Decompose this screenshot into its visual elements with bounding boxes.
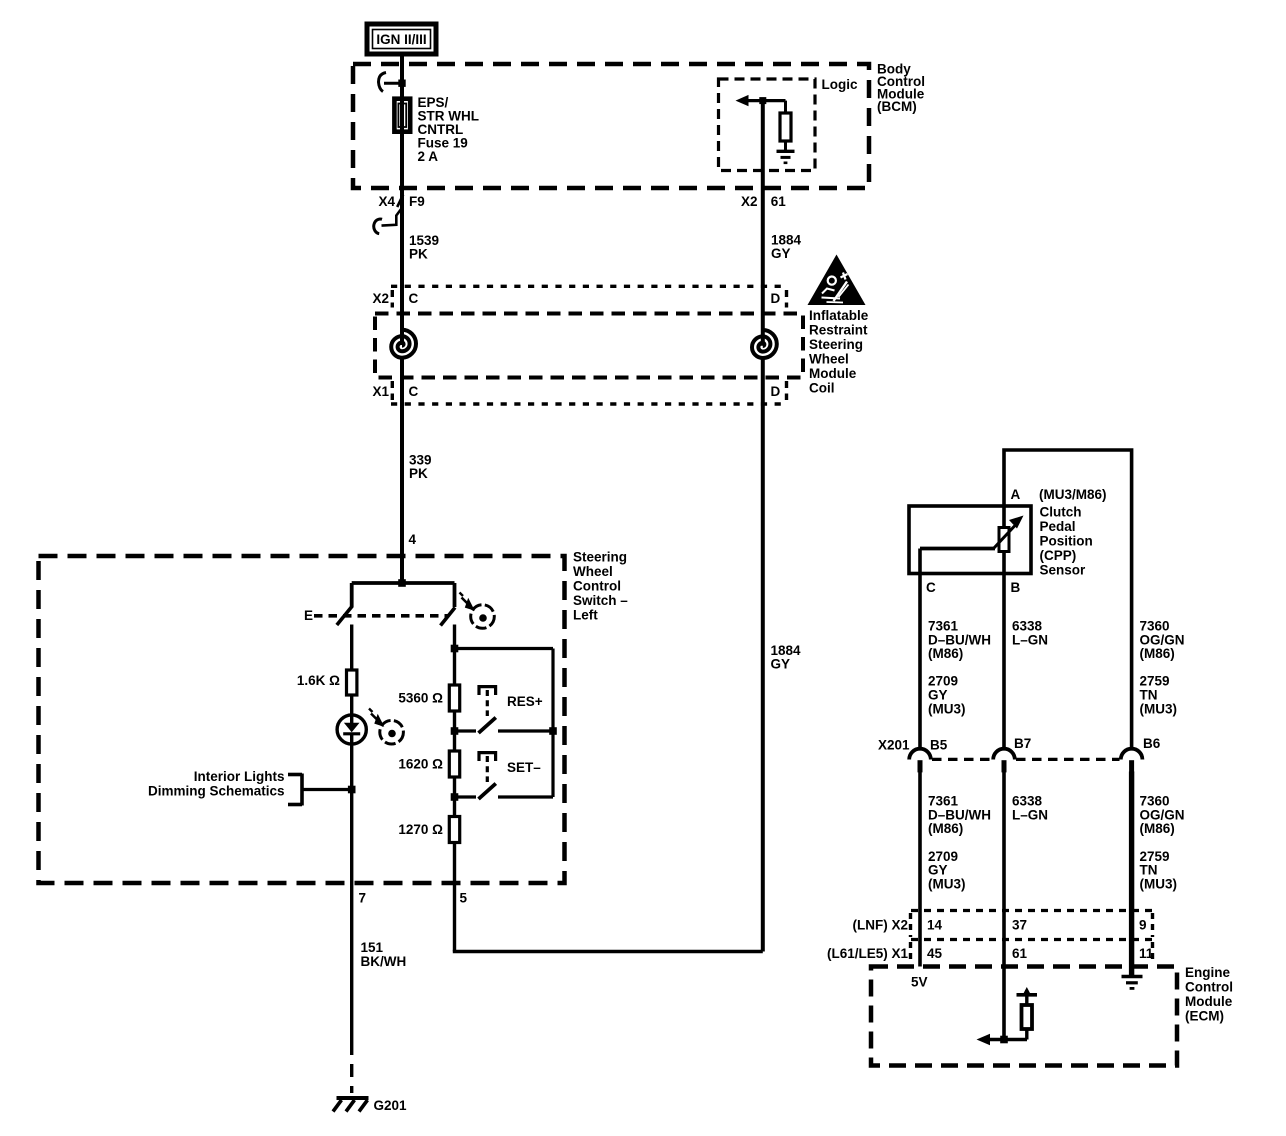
- pin labels X2 C D: [372, 291, 780, 306]
- ECM connector row ticks X2: [911, 913, 1153, 937]
- svg-text:GY: GY: [771, 657, 791, 672]
- svg-text:GY: GY: [928, 688, 948, 703]
- ECM connector row middle dotted: [911, 938, 1153, 941]
- connector band X1 ticks: [391, 381, 394, 400]
- wire left through coil: [400, 287, 404, 345]
- svg-text:SET–: SET–: [507, 760, 541, 775]
- logic input arrow: [736, 95, 786, 106]
- wire C to ECM: [918, 772, 922, 967]
- svg-text:Wheel: Wheel: [573, 564, 613, 579]
- ECM connector row X2 dotted top: [911, 909, 1153, 912]
- svg-text:Coil: Coil: [809, 381, 835, 396]
- wire 151 dashed tail: [350, 1042, 353, 1093]
- potentiometer element: [999, 528, 1009, 552]
- resistor 1270: [449, 817, 459, 843]
- pin numbers 45 61 11: [927, 946, 1154, 961]
- wire interior lights: [302, 788, 352, 791]
- power tag IGN II/III: [367, 24, 436, 54]
- wire label 7361 D-BU/WH (M86) upper: [928, 619, 991, 662]
- wire label 339 PK: [409, 453, 432, 482]
- wire label 7360 OG/GN (M86) lower: [1140, 794, 1185, 837]
- pin label X4 F9: [378, 194, 424, 209]
- svg-text:7361: 7361: [928, 794, 959, 809]
- wire A route over top to B6: [1004, 450, 1132, 750]
- svg-text:5: 5: [460, 891, 468, 906]
- svg-text:A: A: [1011, 487, 1021, 502]
- resistor 1620: [449, 751, 459, 777]
- svg-text:GY: GY: [928, 863, 948, 878]
- wire switch chain: [453, 649, 456, 884]
- wire label 7360 OG/GN (M86) upper: [1140, 619, 1185, 662]
- svg-text:PK: PK: [409, 466, 428, 481]
- svg-text:X201: X201: [878, 738, 910, 753]
- wire B6 to ECM thick: [1129, 772, 1134, 977]
- svg-text:B6: B6: [1143, 736, 1161, 751]
- svg-text:OG/GN: OG/GN: [1140, 807, 1185, 822]
- module box Steering Wheel Control Switch Left: [39, 556, 565, 883]
- module box BCM: [353, 64, 869, 188]
- connector X201 dashed line: [932, 758, 1120, 761]
- wire B7 to ECM: [1002, 772, 1006, 1040]
- svg-text:2 A: 2 A: [418, 149, 439, 164]
- svg-text:Sensor: Sensor: [1040, 563, 1087, 578]
- pin labels B5 B7 B6: [930, 736, 1161, 753]
- svg-text:L–GN: L–GN: [1012, 807, 1048, 822]
- CPP sensor housing box: [909, 506, 1031, 574]
- wire label 151 BK/WH: [361, 940, 407, 969]
- svg-text:Left: Left: [573, 608, 598, 623]
- svg-text:X4: X4: [378, 194, 395, 209]
- wire label 6338 L-GN lower: [1012, 794, 1048, 823]
- connector band X1 bottom dotted line: [391, 402, 787, 405]
- SIR caution triangle: [808, 255, 866, 306]
- pin numbers 14 37 9: [927, 918, 1147, 933]
- resistor 1.6K: [347, 670, 357, 695]
- wiper wire to C: [920, 547, 995, 551]
- svg-text:1270 Ω: 1270 Ω: [398, 822, 443, 837]
- svg-text:Restraint: Restraint: [809, 323, 868, 338]
- svg-text:2709: 2709: [928, 849, 958, 864]
- wire B down: [1002, 551, 1006, 750]
- svg-text:7360: 7360: [1140, 794, 1170, 809]
- svg-text:(MU3): (MU3): [928, 877, 966, 892]
- svg-text:(MU3/M86): (MU3/M86): [1039, 487, 1107, 502]
- wire label 2709 GY (MU3) lower: [928, 849, 966, 892]
- wire LED down: [350, 744, 353, 883]
- logic ground: [777, 151, 795, 163]
- ECM supply arrow: [1017, 987, 1038, 1005]
- svg-text:C: C: [409, 291, 419, 306]
- svg-text:14: 14: [927, 918, 943, 933]
- module box ECM: [871, 967, 1177, 1066]
- svg-text:6338: 6338: [1012, 619, 1043, 634]
- svg-text:9: 9: [1139, 918, 1147, 933]
- svg-text:RES+: RES+: [507, 694, 543, 709]
- wire label 2759 TN (MU3) lower: [1140, 849, 1178, 892]
- svg-text:5V: 5V: [911, 975, 928, 990]
- label Body Control Module (BCM): [877, 62, 925, 115]
- connector hook symbol below X4: [374, 209, 402, 234]
- label Clutch Pedal Position (CPP) Sensor: [1040, 505, 1093, 578]
- svg-text:2759: 2759: [1140, 674, 1170, 689]
- svg-text:Control: Control: [1185, 980, 1233, 995]
- pin labels X1 C D: [372, 384, 780, 399]
- connector band X2 ticks: [391, 290, 394, 308]
- connector X201 pins: [918, 760, 1135, 772]
- wire label 6338 L-GN upper: [1012, 619, 1048, 648]
- svg-text:5360 Ω: 5360 Ω: [398, 691, 443, 706]
- svg-text:D: D: [771, 291, 781, 306]
- svg-text:D: D: [771, 384, 781, 399]
- svg-text:C: C: [409, 384, 419, 399]
- wire 5 to 1884 GY: [453, 883, 763, 952]
- svg-text:45: 45: [927, 946, 943, 961]
- wire 1884 GY from BCM to bottom corner: [761, 101, 765, 346]
- coil module dashed box: [375, 314, 803, 378]
- wire label 1539 PK: [409, 233, 439, 262]
- connector band X2 top dotted line: [391, 285, 787, 288]
- svg-text:(M86): (M86): [1140, 821, 1175, 836]
- svg-text:Position: Position: [1040, 534, 1093, 549]
- bus vertical right: [551, 649, 554, 798]
- svg-text:Inflatable: Inflatable: [809, 308, 869, 323]
- svg-text:(M86): (M86): [1140, 646, 1175, 661]
- svg-text:(LNF) X2: (LNF) X2: [853, 918, 909, 933]
- svg-text:BK/WH: BK/WH: [361, 954, 407, 969]
- svg-text:TN: TN: [1140, 688, 1158, 703]
- switch contact inside BCM: [379, 73, 406, 92]
- switch common bar: [352, 581, 455, 585]
- wire label 2759 TN (MU3) upper: [1140, 674, 1178, 717]
- SET- detent switch: [451, 753, 553, 801]
- svg-text:61: 61: [1012, 946, 1028, 961]
- svg-text:Switch –: Switch –: [573, 593, 628, 608]
- svg-text:C: C: [926, 580, 936, 595]
- svg-text:(CPP): (CPP): [1040, 548, 1077, 563]
- svg-text:E: E: [304, 608, 313, 623]
- interior lights bracket: [288, 774, 302, 806]
- svg-text:Interior Lights: Interior Lights: [194, 769, 285, 784]
- wire IGN to fuse: [400, 54, 404, 287]
- svg-text:X2: X2: [741, 194, 758, 209]
- svg-text:(MU3): (MU3): [928, 701, 966, 716]
- svg-text:G201: G201: [374, 1098, 408, 1113]
- wire 151 solid: [350, 883, 353, 1042]
- label interior lights: [148, 769, 285, 798]
- svg-text:(M86): (M86): [928, 821, 963, 836]
- svg-text:X1: X1: [372, 384, 389, 399]
- potentiometer wiper arrow: [994, 516, 1024, 549]
- ECM signal arrow on B7: [977, 1034, 1028, 1046]
- pin label X2 61 at BCM: [741, 194, 786, 209]
- rotary actuator icon right switch: [460, 593, 495, 629]
- svg-text:(MU3): (MU3): [1140, 701, 1178, 716]
- right switch: [441, 583, 456, 649]
- svg-text:Module: Module: [1185, 994, 1233, 1009]
- svg-text:Dimming Schematics: Dimming Schematics: [148, 783, 285, 798]
- ECM connector row ticks X1: [911, 942, 1153, 964]
- svg-text:B5: B5: [930, 738, 948, 753]
- svg-text:D–BU/WH: D–BU/WH: [928, 632, 991, 647]
- svg-text:B: B: [1011, 580, 1021, 595]
- svg-text:GY: GY: [771, 246, 791, 261]
- svg-text:37: 37: [1012, 918, 1027, 933]
- svg-text:61: 61: [771, 194, 787, 209]
- svg-text:7361: 7361: [928, 619, 959, 634]
- LED lamp symbol: [337, 715, 366, 744]
- svg-text:(ECM): (ECM): [1185, 1009, 1224, 1024]
- svg-text:Clutch: Clutch: [1040, 505, 1082, 520]
- svg-text:7: 7: [359, 891, 367, 906]
- ECM pull-up resistor: [1022, 1005, 1033, 1040]
- svg-text:Pedal: Pedal: [1040, 519, 1076, 534]
- wire label 7361 D-BU/WH (M86) lower: [928, 794, 991, 837]
- svg-text:1.6K Ω: 1.6K Ω: [297, 673, 340, 688]
- wire label 1884 GY lower: [771, 643, 802, 672]
- svg-text:6338: 6338: [1012, 794, 1043, 809]
- svg-text:X2: X2: [372, 291, 389, 306]
- logic box: [719, 79, 816, 171]
- resistor 5360: [449, 685, 459, 711]
- ground G201: [333, 1098, 369, 1112]
- left switch: [337, 583, 353, 670]
- svg-text:Steering: Steering: [573, 550, 627, 565]
- svg-text:PK: PK: [409, 247, 428, 262]
- svg-text:Module: Module: [809, 366, 857, 381]
- svg-text:Engine: Engine: [1185, 965, 1230, 980]
- svg-text:L–GN: L–GN: [1012, 632, 1048, 647]
- E dashed line: [314, 614, 448, 618]
- label Steering Wheel Control Switch Left: [573, 550, 628, 623]
- RES+ detent switch: [451, 687, 557, 735]
- svg-text:(L61/LE5) X1: (L61/LE5) X1: [827, 946, 909, 961]
- svg-text:Wheel: Wheel: [809, 352, 849, 367]
- svg-text:D–BU/WH: D–BU/WH: [928, 807, 991, 822]
- svg-text:(M86): (M86): [928, 646, 963, 661]
- wire label 1884 GY upper: [771, 233, 802, 262]
- label Inflatable Restraint Steering Wheel Module Coil: [809, 308, 869, 396]
- label fuse: [418, 95, 480, 164]
- wire label 2709 GY (MU3) upper: [928, 674, 966, 717]
- rotary actuator icon at LED: [369, 709, 403, 745]
- svg-text:Logic: Logic: [822, 77, 858, 92]
- junction node interior lights: [348, 786, 356, 794]
- resistor chain junction top: [451, 645, 459, 653]
- logic pull-down resistor: [780, 101, 791, 150]
- svg-text:(MU3): (MU3): [1140, 877, 1178, 892]
- svg-text:B7: B7: [1014, 736, 1031, 751]
- connector X201 arcs: [909, 749, 1142, 760]
- svg-text:7360: 7360: [1140, 619, 1170, 634]
- svg-text:(BCM): (BCM): [877, 99, 917, 114]
- wire C down: [918, 549, 922, 750]
- svg-text:2759: 2759: [1140, 849, 1170, 864]
- svg-text:F9: F9: [409, 194, 425, 209]
- clockspring coil left: [391, 330, 416, 358]
- junction node pin4: [398, 579, 406, 587]
- svg-text:2709: 2709: [928, 674, 958, 689]
- svg-text:Control: Control: [573, 579, 621, 594]
- svg-text:Steering: Steering: [809, 337, 863, 352]
- svg-text:1620 Ω: 1620 Ω: [398, 757, 443, 772]
- svg-text:11: 11: [1139, 946, 1154, 961]
- svg-text:4: 4: [409, 532, 417, 547]
- svg-text:OG/GN: OG/GN: [1140, 632, 1185, 647]
- svg-text:151: 151: [361, 940, 384, 955]
- fuse F19 EPS/STR WHL CNTRL 2A: [394, 99, 410, 132]
- label Engine Control Module (ECM): [1185, 965, 1233, 1024]
- wire to RES bus: [455, 647, 554, 650]
- svg-text:TN: TN: [1140, 863, 1158, 878]
- ECM ground at pin 11: [1122, 977, 1143, 989]
- clockspring coil right: [752, 330, 777, 358]
- wire resistor to LED: [350, 695, 353, 716]
- svg-text:IGN II/III: IGN II/III: [376, 32, 426, 47]
